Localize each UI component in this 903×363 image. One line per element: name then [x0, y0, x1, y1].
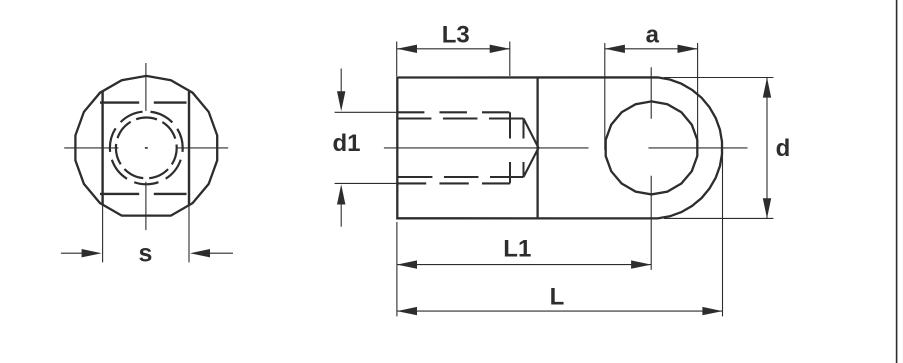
- L right arrow: [702, 307, 722, 315]
- left view: flat bottom edge right segment: [154, 193, 187, 195]
- d1 bottom arrow: [337, 184, 345, 204]
- left view: thread minor diameter dashed circle: [116, 117, 177, 178]
- svg-text:L3: L3: [442, 21, 470, 48]
- left view: vertical centerline: [145, 63, 147, 230]
- left view: flat bottom edge left segment: [100, 193, 139, 195]
- a right arrow: [678, 45, 698, 53]
- s dimension left arrow: [82, 249, 102, 257]
- L3 dimension extension lines: [397, 42, 510, 77]
- thread major diameter bottom dashed line: [397, 182, 510, 184]
- d dimension line: [766, 78, 768, 219]
- right view: horizontal centerline: [384, 147, 748, 149]
- thread major diameter top dashed line: [397, 111, 510, 113]
- svg-text:s: s: [138, 239, 152, 267]
- d dimension extension lines: [664, 78, 773, 219]
- left view: thread major diameter dashed circle: [110, 111, 183, 184]
- L3 dimension line: [397, 48, 510, 50]
- left view: horizontal centerline: [64, 147, 228, 149]
- thread minor diameter top dashed line: [397, 117, 524, 119]
- s dimension right arrow: [190, 249, 210, 257]
- d1 top arrow: [337, 91, 345, 111]
- thread end vertical connector at minor diameter: [523, 119, 525, 178]
- s dimension leader lines: [61, 252, 233, 254]
- left view: center dot: [145, 147, 148, 149]
- svg-text:d: d: [776, 135, 791, 162]
- svg-text:L: L: [550, 283, 565, 310]
- left view: flat top edge left segment: [100, 101, 139, 103]
- svg-text:L1: L1: [503, 236, 531, 263]
- s dimension extension lines: [103, 205, 189, 262]
- thread end vertical connector at major diameter: [509, 112, 511, 183]
- right view: eye vertical centerline: [650, 67, 652, 270]
- L1 dimension line: [397, 264, 651, 266]
- L right extension line: [722, 150, 724, 316]
- svg-text:d1: d1: [332, 130, 360, 157]
- thread minor diameter bottom dashed line: [397, 176, 524, 178]
- d1 top arrow leader: [340, 69, 342, 94]
- right view: body outline with rounded eye end: [397, 77, 722, 218]
- right view: internal vertical edge between shank and eye: [536, 78, 538, 219]
- page right border line: [896, 0, 898, 363]
- left view: wrench flat right vertical edge: [188, 92, 190, 205]
- left view: outer 18-gon body outline: [75, 76, 217, 216]
- L3 right arrow: [490, 45, 510, 53]
- a dimension extension lines: [605, 43, 698, 150]
- drill point cone upper line: [524, 119, 539, 148]
- L dimension line: [397, 310, 723, 312]
- drill point cone lower line: [524, 148, 539, 177]
- L1 left arrow: [397, 260, 417, 268]
- svg-text:a: a: [646, 21, 660, 48]
- L1 right arrow: [631, 260, 651, 268]
- left view: wrench flat left vertical edge: [101, 92, 103, 205]
- a dimension line: [605, 48, 698, 50]
- L1/L shared left extension line: [396, 222, 398, 316]
- d bottom arrow: [763, 198, 771, 218]
- d1 bottom arrow leader: [340, 204, 342, 227]
- d1 dimension extension lines: [335, 112, 397, 183]
- L3 left arrow: [397, 45, 417, 53]
- L left arrow: [397, 307, 417, 315]
- a left arrow: [605, 45, 625, 53]
- left view: flat top edge right segment: [154, 101, 187, 103]
- right view: eye hole circle: [606, 101, 698, 194]
- d top arrow: [763, 78, 771, 98]
